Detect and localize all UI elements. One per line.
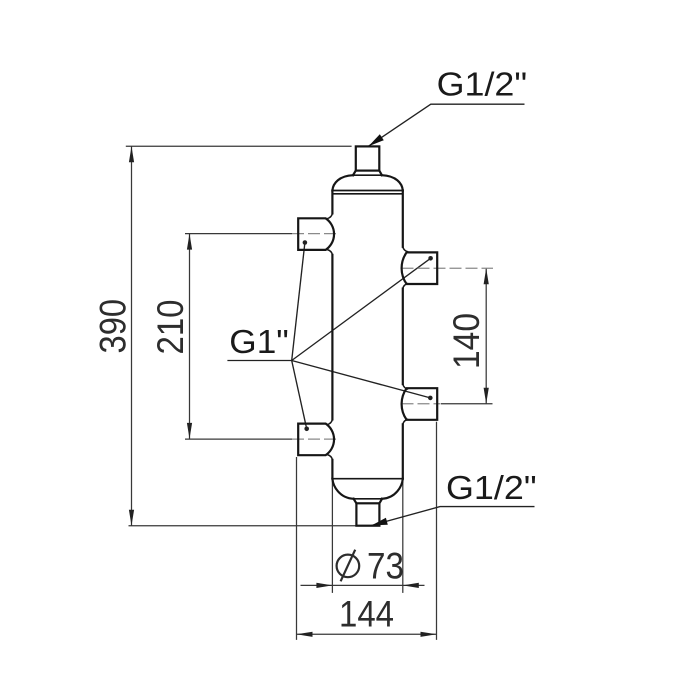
svg-text:G1/2": G1/2" xyxy=(446,470,537,507)
svg-text:140: 140 xyxy=(445,313,487,369)
svg-text:210: 210 xyxy=(149,300,191,355)
svg-text:G1": G1" xyxy=(229,324,288,361)
svg-text:73: 73 xyxy=(367,545,404,587)
svg-text:G1/2": G1/2" xyxy=(437,67,527,104)
svg-text:144: 144 xyxy=(339,593,394,635)
svg-text:390: 390 xyxy=(92,299,134,354)
